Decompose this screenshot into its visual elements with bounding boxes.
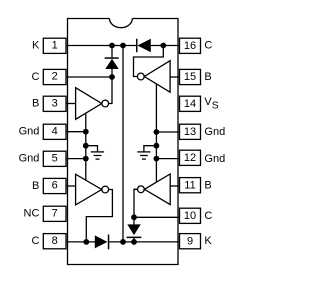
wire pin 15 B to inverter U1B input (170, 76, 179, 78)
svg-text:B: B (32, 180, 39, 192)
wire center K bus (pin1 rail to pin9 rail) (122, 46, 124, 242)
svg-text:Gnd: Gnd (204, 126, 225, 138)
diode D1 (channel A clamp, pin2 C to K rail) (105, 57, 119, 69)
ground symbol left (91, 152, 104, 159)
IC body outline U1 (16-pin DIP) (68, 19, 179, 265)
inverter U1A output bubble (102, 100, 109, 107)
inverter U1B (channel B, pins 15-16) (144, 61, 170, 92)
diode D4 (channel D clamp, pin10 C to K rail) (127, 224, 142, 238)
svg-text:8: 8 (52, 235, 58, 247)
pin 15 box (180, 69, 201, 84)
svg-text:16: 16 (184, 40, 196, 52)
pin 16 box (180, 38, 201, 53)
svg-text:B: B (32, 98, 39, 110)
wire ground stub left (86, 146, 98, 152)
pin 1 box (43, 38, 66, 53)
svg-text:K: K (32, 40, 40, 52)
notch (pin-1 index) at top of package (110, 19, 133, 28)
wire pin1 K to top rail (66, 45, 68, 47)
wire pin 6 B to inverter U1C input (66, 185, 76, 187)
pin 7 box (43, 206, 66, 221)
pin 3 box (43, 96, 66, 111)
svg-text:2: 2 (52, 71, 58, 83)
svg-text:Gnd: Gnd (204, 153, 225, 165)
wire diode D1 anode to pin 2 node (111, 69, 113, 77)
svg-text:3: 3 (52, 98, 58, 110)
wire pin 3 B to inverter U1A input (66, 103, 76, 105)
junction dot: pin8 node / channel-C output (83, 239, 89, 245)
wire diode D4 cathode to pin 9 rail (133, 237, 135, 242)
junction dot: D4 cathode / pin9 rail (131, 239, 137, 245)
svg-text:Gnd: Gnd (19, 126, 40, 138)
junction dot: right bus / ground symbol (154, 143, 160, 149)
wire top K rail (pin 1 to diode D2 cathode) (68, 45, 137, 47)
pin 12 box (180, 150, 201, 165)
wire pin 11 B to inverter U1D input (170, 185, 179, 187)
junction dot: pin2 node / channel-A output (109, 74, 115, 80)
junction dot: right bus / pin 13 (154, 129, 160, 135)
inverter U1D (channel D, pins 11-10) (144, 174, 170, 205)
wire channel-A output (bubble to pin 2 node) (109, 77, 112, 104)
svg-text:C: C (204, 210, 212, 222)
inverter U1B output bubble (137, 73, 144, 80)
svg-text:4: 4 (52, 126, 58, 138)
ground symbol right (137, 152, 150, 159)
svg-text:B: B (204, 179, 211, 191)
pin 10 box (180, 208, 201, 223)
pin 5 box (43, 151, 66, 166)
svg-text:B: B (204, 71, 211, 83)
svg-text:1: 1 (52, 40, 58, 52)
wire pin 4 Gnd (66, 131, 86, 133)
inverter U1A (channel A, pins 3-2) (76, 88, 102, 120)
svg-text:C: C (31, 235, 39, 247)
inverter U1D output bubble (138, 186, 145, 193)
pin 4 box (43, 124, 66, 139)
pin 9 box (180, 234, 201, 249)
svg-text:C: C (31, 71, 39, 83)
svg-text:12: 12 (184, 152, 196, 164)
svg-text:11: 11 (184, 179, 195, 191)
junction dot: left bus / pin 4 (83, 129, 89, 135)
svg-text:13: 13 (184, 126, 196, 138)
svg-text:C: C (204, 40, 212, 52)
wire pin 8 C to diode D3 anode (66, 241, 95, 243)
wire pin 10 C (134, 216, 180, 218)
wire pin 5 Gnd (66, 158, 86, 160)
svg-text:K: K (204, 235, 212, 247)
junction dot: left bus / ground symbol (83, 143, 89, 149)
svg-text:Gnd: Gnd (19, 153, 40, 165)
pin 2 box (43, 69, 66, 84)
wire pin 2 C (66, 76, 112, 78)
diode D3 (channel C clamp, pin8 C to K rail) (95, 235, 110, 250)
junction dot: right bus / pin 12 (154, 156, 160, 162)
wire pin16 C segment (diode D2 anode to pin 16) (151, 45, 180, 47)
pin 8 box (43, 234, 66, 249)
junction dot: K rail / K bus top (120, 43, 126, 49)
junction dot: left bus / pin 5 (83, 156, 89, 162)
wire pin 13 Gnd (156, 131, 179, 133)
wire channel-D clamp (node to diode D4) (133, 217, 135, 224)
pin 6 box (43, 178, 66, 193)
wire channel-B output (bubble to pin 16 node) (134, 46, 164, 77)
svg-text:NC: NC (24, 208, 40, 220)
svg-text:15: 15 (184, 71, 196, 83)
wire left ground bus (85, 113, 87, 180)
wire bottom K rail (diode D3 cathode to pin 9) (109, 241, 179, 243)
inverter U1C output bubble (102, 186, 109, 193)
svg-text:5: 5 (52, 153, 58, 165)
pin 14 box (180, 96, 201, 111)
pin 11 box (180, 178, 201, 193)
junction dot: K bus bottom (120, 239, 126, 245)
wire right ground bus (155, 84, 157, 182)
wire channel-C output (bubble to pin 8 node) (86, 190, 112, 242)
wire channel-A clamp (node K to diode D1) (111, 46, 113, 59)
svg-text:6: 6 (52, 180, 58, 192)
junction dot: K rail / D1 (109, 43, 115, 49)
diode D2 (channel B clamp, pin16 C to K rail) (136, 39, 151, 52)
svg-text:7: 7 (52, 208, 58, 220)
svg-text:14: 14 (184, 98, 196, 110)
svg-text:9: 9 (187, 235, 193, 247)
pin 13 box (180, 124, 201, 139)
junction dot: pin10 node / channel-D output (131, 214, 137, 220)
svg-text:10: 10 (184, 210, 196, 222)
wire ground stub right (144, 146, 157, 152)
wire channel-D output (bubble to pin 10 node) (134, 189, 137, 217)
wire pin 12 Gnd (156, 158, 179, 160)
junction dot: pin16 node / channel-B output (160, 43, 166, 49)
inverter U1C (channel C, pins 6-8) (76, 174, 102, 205)
